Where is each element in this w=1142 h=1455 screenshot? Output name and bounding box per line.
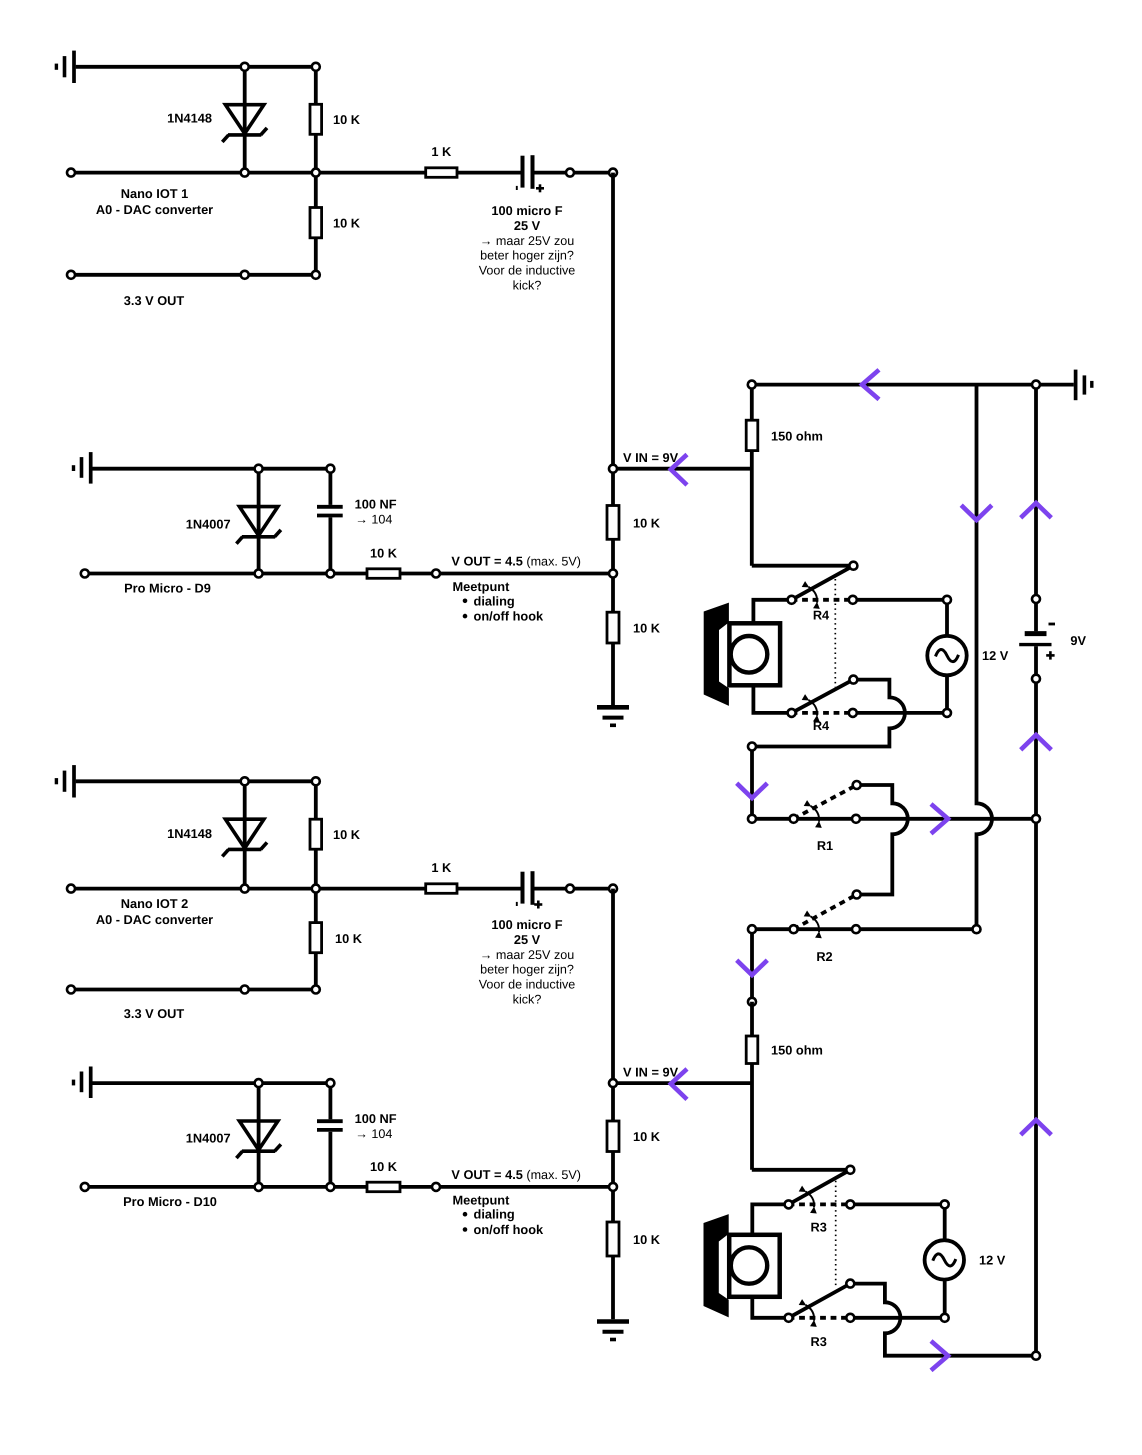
wire: between VIN divider resistors upper	[611, 539, 615, 612]
svg-text:100 micro F: 100 micro F	[491, 203, 562, 218]
node phone1 bottom rail end	[748, 743, 756, 751]
node A0 rail 2 / divider mid	[312, 885, 320, 893]
wire: R3 lower contact with hop to bottom rail	[850, 1284, 1036, 1356]
node battery negative terminal	[1032, 595, 1040, 603]
svg-text:10 K: 10 K	[633, 621, 661, 636]
node R1 rail / wire B junction	[1032, 815, 1040, 823]
node terminal A0 DAC 1	[67, 169, 75, 177]
wire: DAC output rail (node A0-1)	[71, 171, 426, 175]
node R4 upper contact	[849, 562, 857, 570]
speaker SP2 (telephone 2)	[704, 1214, 780, 1317]
svg-text:V IN = 9V: V IN = 9V	[623, 450, 679, 465]
arrow chevron purple (top rail, left)	[862, 370, 879, 400]
svg-text:Pro Micro - D9: Pro Micro - D9	[124, 581, 211, 596]
speaker SP1 (telephone 1)	[704, 603, 780, 706]
capacitor C4 100NF	[317, 1083, 343, 1187]
arrow chevron purple (down, wire A)	[961, 505, 992, 520]
node V OUT junction 1	[609, 570, 617, 578]
node GND rail 2 / D3 cathode	[241, 777, 249, 785]
wire: 150 ohm branch vertical (upper)	[750, 385, 754, 566]
node terminal Pro Micro D9	[81, 570, 89, 578]
switch R3 lower: blade	[789, 1284, 851, 1318]
svg-text:V IN = 9V: V IN = 9V	[623, 1064, 679, 1079]
svg-text:150 ohm: 150 ohm	[771, 1043, 823, 1058]
wire: between divider resistors	[314, 134, 318, 207]
node R3 lower contact	[846, 1280, 854, 1288]
arrow chevron purple (down, phone1 to R1)	[737, 783, 768, 798]
wire: speaker SP1 top lead	[753, 600, 791, 624]
diode D4 1N4007 (zener)	[236, 1083, 281, 1187]
svg-text:1N4148: 1N4148	[167, 111, 212, 126]
svg-text:25 V: 25 V	[514, 218, 541, 233]
node R2 pivot	[790, 925, 798, 933]
ground G5 (nano 2)	[56, 765, 74, 797]
wire: divider bottom to 3.3V rail lower	[314, 953, 318, 990]
node terminal 3.3V OUT 2	[67, 986, 75, 994]
node R4 lower throw	[849, 709, 857, 717]
svg-text:on/off hook: on/off hook	[474, 609, 545, 624]
node battery positive terminal	[1032, 675, 1040, 683]
wire: G5 ground rail to divider top	[76, 779, 316, 783]
wire: R1 contact with hop down to R2 contact	[857, 785, 908, 895]
svg-text:1N4007: 1N4007	[186, 1131, 231, 1146]
label Meetpunt bullets lower	[453, 1193, 545, 1237]
wire: 10K to V OUT node lower	[400, 1185, 613, 1189]
node D10 rail / D4 anode	[255, 1183, 263, 1191]
svg-text:10 K: 10 K	[633, 1232, 661, 1247]
wire: to ground G3	[611, 643, 615, 705]
wire: R2 node down through 150 ohm lower	[750, 1002, 754, 1170]
wire: R1 rail	[752, 817, 1036, 821]
svg-text:A0 - DAC converter: A0 - DAC converter	[96, 912, 213, 927]
wire: R4 lower contact with hop over to bottom rail	[752, 680, 905, 747]
node 150 ohm lower top node	[748, 998, 756, 1006]
node GND rail / C4 top	[326, 1079, 334, 1087]
long vertical wire A with hop over R1 rail	[977, 385, 993, 930]
svg-text:Pro Micro - D10: Pro Micro - D10	[123, 1194, 217, 1209]
node R1 throw on rail	[852, 815, 860, 823]
ground G4 (top right)	[1076, 370, 1092, 401]
svg-text:Voor de inductive: Voor de inductive	[479, 978, 576, 992]
switch R3 upper: blade	[789, 1170, 851, 1205]
wire: capacitor C1 to corner node	[535, 171, 614, 175]
svg-text:R2: R2	[816, 949, 832, 964]
svg-text:→ 104: → 104	[355, 512, 392, 526]
svg-text:A0 - DAC converter: A0 - DAC converter	[96, 202, 213, 217]
node GND rail / D4 cathode	[255, 1079, 263, 1087]
resistor R-D2 10K (upper VIN divider bottom)	[607, 612, 619, 643]
node top rail / 150 ohm branch	[748, 381, 756, 389]
svg-text:R1: R1	[817, 838, 833, 853]
svg-text:Voor de inductive: Voor de inductive	[479, 264, 576, 278]
node corner to VIN rail 2	[609, 885, 617, 893]
node GND rail / R-A1 top	[312, 63, 320, 71]
diode D3 1N4148 (zener)	[222, 781, 267, 888]
resistor R-I2 10K (lower VIN divider bottom)	[607, 1222, 619, 1256]
switch R4 lower: blade	[792, 680, 854, 713]
svg-text:dialing: dialing	[474, 593, 515, 608]
resistor R-D1 10K (upper VIN divider top)	[607, 506, 619, 540]
svg-text:10 K: 10 K	[633, 515, 661, 530]
switch R4 lower: open throw dashed	[792, 711, 853, 715]
wire: main vertical rail (cap out to ground) upper	[611, 173, 615, 506]
arrow chevron purple (right, R1 rail)	[931, 804, 948, 834]
svg-text:10 K: 10 K	[335, 931, 363, 946]
node AC1 top	[943, 596, 951, 604]
wire: V IN = 9V feed (upper)	[613, 467, 752, 471]
svg-text:12 V: 12 V	[982, 648, 1009, 663]
wire: corner to R4 upper contact	[752, 564, 854, 568]
svg-text:kick?: kick?	[513, 993, 542, 1007]
resistor R-G1 1K (series lower)	[426, 884, 457, 894]
svg-text:→ maar 25V zou: → maar 25V zou	[480, 234, 575, 248]
node terminal 3.3V OUT 1	[67, 271, 75, 279]
svg-text:10 K: 10 K	[333, 112, 361, 127]
node GND rail / C2 top	[326, 465, 334, 473]
node R2 throw on rail	[852, 925, 860, 933]
svg-text:beter hoger zijn?: beter hoger zijn?	[480, 963, 574, 977]
resistor R-A2 10K (divider bottom)	[310, 208, 322, 238]
svg-text:9V: 9V	[1070, 633, 1086, 648]
node AC2 top	[941, 1200, 949, 1208]
svg-text:1N4007: 1N4007	[186, 516, 231, 531]
switch R4 upper: blade	[792, 566, 854, 600]
svg-text:V OUT = 4.5 (max. 5V): V OUT = 4.5 (max. 5V)	[451, 554, 581, 569]
node R3 upper throw	[846, 1200, 854, 1208]
wire: Pro Micro D10 output rail	[85, 1185, 367, 1189]
arrow chevron purple (up, wire B lower)	[1021, 1120, 1052, 1135]
svg-text:kick?: kick?	[513, 279, 542, 293]
svg-text:1N4148: 1N4148	[167, 826, 212, 841]
node R-H1 output	[432, 1183, 440, 1191]
battery BT1 9V	[1019, 599, 1055, 679]
wire: G2 ground rail	[93, 467, 331, 471]
wire: 3.3V OUT rail	[71, 273, 316, 277]
node R2 open contact	[853, 891, 861, 899]
switch R3 upper: motion arrow	[806, 1192, 814, 1208]
resistor R-A1 10K (divider top)	[310, 67, 322, 135]
diode D2 1N4007 (zener)	[236, 469, 281, 574]
node 3.3V rail mid 1	[241, 271, 249, 279]
wire: 1K to capacitor C1	[457, 171, 521, 175]
node top rail / battery branch	[1032, 381, 1040, 389]
wire: R4 lower throw to AC source bottom	[853, 711, 947, 715]
wire: between VIN divider resistors lower	[611, 1152, 615, 1223]
node GND rail 2 / R-F1 top	[312, 777, 320, 785]
node R3 lower pivot	[785, 1314, 793, 1322]
long vertical wire B (battery branch) top	[1034, 385, 1038, 599]
svg-text:R3: R3	[811, 1334, 827, 1349]
node D9 rail / D2 anode	[255, 570, 263, 578]
node AC2 bottom	[941, 1314, 949, 1322]
svg-text:Meetpunt: Meetpunt	[453, 579, 511, 594]
mechanical link dotted R3	[835, 1181, 837, 1289]
resistor R-J1 150 ohm (lower)	[746, 1036, 758, 1064]
node R1 open contact	[853, 781, 861, 789]
node A0 rail / divider mid 1	[312, 169, 320, 177]
wire: to ground G7	[611, 1256, 615, 1319]
svg-text:Meetpunt: Meetpunt	[453, 1193, 511, 1208]
svg-text:Nano IOT 1: Nano IOT 1	[121, 186, 189, 201]
wire: speaker SP1 bottom lead	[753, 685, 791, 713]
switch R4 lower: motion arrow	[809, 700, 817, 716]
node 3.3V rail 2 / R-F2 bottom	[312, 986, 320, 994]
svg-text:10 K: 10 K	[370, 1159, 398, 1174]
switch R3 lower: motion arrow	[806, 1305, 814, 1321]
arrow chevron purple (V IN lower, left)	[671, 1069, 687, 1100]
wire: speaker SP2 bottom lead	[752, 1297, 788, 1318]
svg-text:3.3 V OUT: 3.3 V OUT	[124, 1006, 185, 1021]
arrow chevron purple (V IN upper, left)	[671, 455, 687, 486]
resistor R-F1 10K (divider top lower)	[310, 781, 322, 849]
svg-text:Nano IOT 2: Nano IOT 2	[121, 896, 189, 911]
node C3 output	[566, 885, 574, 893]
node GND rail / D2 cathode	[255, 465, 263, 473]
svg-text:100 NF: 100 NF	[355, 1111, 397, 1126]
svg-text:R4: R4	[813, 608, 830, 623]
arrow chevron purple (up, wire B top)	[1021, 503, 1052, 518]
AC source AC1 12V	[927, 600, 966, 713]
node R4 upper pivot	[788, 596, 796, 604]
svg-text:150 ohm: 150 ohm	[771, 428, 823, 443]
label C1 100 micro F / 25 V note	[479, 203, 576, 293]
node bottom rail / wire B end	[1032, 1352, 1040, 1360]
node R4 lower pivot	[788, 709, 796, 717]
svg-text:12 V: 12 V	[979, 1253, 1006, 1268]
switch R3 lower: open throw dashed	[789, 1316, 851, 1320]
wire: 3.3V OUT rail lower	[71, 988, 316, 992]
switch R1: dashed blade	[794, 785, 857, 819]
wire: corner to R3 upper contact	[752, 1168, 851, 1172]
svg-text:10 K: 10 K	[333, 827, 361, 842]
capacitor C2 100NF	[317, 469, 343, 574]
node terminal A0 DAC 2	[67, 885, 75, 893]
svg-text:R4: R4	[813, 718, 830, 733]
wire: phone1 bottom node down to R1 rail	[750, 747, 754, 819]
node V IN junction 2	[609, 1079, 617, 1087]
svg-text:10 K: 10 K	[333, 216, 361, 231]
node R1 rail left end	[748, 815, 756, 823]
wire: R3 lower throw to AC2 bottom	[850, 1316, 944, 1320]
svg-text:→ 104: → 104	[355, 1127, 392, 1141]
node A0 rail 2 / D3 anode	[241, 885, 249, 893]
svg-text:100 NF: 100 NF	[355, 497, 397, 512]
capacitor C1 100uF electrolytic	[517, 155, 544, 192]
ground G3 (below divider upper)	[597, 707, 629, 725]
node AC1 bottom	[943, 709, 951, 717]
resistor R-C1 10K (series pro micro)	[367, 569, 400, 579]
ground G2 (pro micro upper)	[74, 452, 91, 484]
wire: G1 ground rail to divider top	[76, 65, 316, 69]
wire: V IN = 9V feed (lower)	[613, 1081, 752, 1085]
wire: battery to R1 rail and beyond (wire B)	[1034, 679, 1038, 1356]
resistor R-E1 150 ohm (upper)	[746, 420, 758, 450]
node 3.3V rail / R-A2 bottom	[312, 271, 320, 279]
node D10 rail / C4 bottom	[326, 1183, 334, 1191]
wire: capacitor C3 to corner node	[535, 887, 614, 891]
wire: 1K to capacitor C3	[457, 887, 521, 891]
svg-text:1 K: 1 K	[431, 144, 452, 159]
node V IN junction 1	[609, 465, 617, 473]
arrow chevron purple (down, R2 to 150 ohm)	[737, 960, 768, 975]
node R1 pivot	[790, 815, 798, 823]
node V OUT junction 2	[609, 1183, 617, 1191]
wire: 10K to V OUT node	[400, 572, 613, 576]
node C1 output	[566, 169, 574, 177]
ground G1 (top-left)	[56, 51, 74, 83]
svg-text:1 K: 1 K	[431, 860, 452, 875]
node 3.3V rail 2 mid	[241, 986, 249, 994]
svg-text:25 V: 25 V	[514, 932, 541, 947]
resistor R-F2 10K (divider bottom lower)	[310, 923, 322, 953]
node R2 rail / wire A junction	[973, 925, 981, 933]
svg-text:3.3 V OUT: 3.3 V OUT	[124, 293, 185, 308]
capacitor C3 100uF electrolytic	[517, 871, 543, 908]
node R4 lower contact	[849, 676, 857, 684]
svg-text:dialing: dialing	[474, 1207, 515, 1222]
svg-text:100 micro F: 100 micro F	[491, 917, 562, 932]
switch R1: motion arrow	[811, 806, 819, 822]
node A0 rail / D1 anode	[241, 169, 249, 177]
svg-text:V OUT = 4.5 (max. 5V): V OUT = 4.5 (max. 5V)	[451, 1167, 581, 1182]
wire: divider bottom to 3.3V rail	[314, 238, 318, 275]
switch R4 upper: motion arrow	[809, 587, 817, 603]
mechanical link dotted R4	[834, 579, 836, 687]
label C3 100 micro F / 25 V note	[479, 917, 576, 1007]
wire: speaker SP2 top lead	[752, 1204, 788, 1234]
resistor R-I1 10K (lower VIN divider top)	[607, 1121, 619, 1152]
svg-text:→ maar 25V zou: → maar 25V zou	[480, 948, 575, 962]
node R3 upper pivot	[785, 1200, 793, 1208]
node R3 upper contact	[846, 1166, 854, 1174]
node R3 lower throw	[846, 1314, 854, 1322]
arrow chevron purple (right, bottom rail)	[931, 1341, 948, 1370]
node corner to VIN rail 1	[609, 169, 617, 177]
svg-text:on/off hook: on/off hook	[474, 1222, 545, 1237]
diode D1 1N4148 (zener)	[222, 67, 267, 173]
label Meetpunt bullets	[453, 579, 545, 623]
wire: top ground rail	[752, 383, 1074, 387]
wire: R2 rail down to lower 150 ohm	[750, 929, 754, 1002]
wire: DAC output rail (node A0-2)	[71, 887, 426, 891]
switch R4 upper: open throw dashed	[792, 598, 853, 602]
wire: G6 ground rail	[93, 1081, 331, 1085]
resistor R-H1 10K (series pro micro lower)	[367, 1182, 400, 1192]
wire: Pro Micro D9 output rail	[85, 572, 367, 576]
ground G7 (below divider lower)	[597, 1322, 629, 1340]
node R4 upper throw	[849, 596, 857, 604]
node terminal Pro Micro D10	[81, 1183, 89, 1191]
wire: between divider resistors lower	[314, 849, 318, 922]
wire: main vertical rail lower (cap out to ground)	[611, 889, 615, 1121]
switch R3 upper: open throw dashed	[789, 1203, 851, 1207]
node D9 rail / C2 bottom	[326, 570, 334, 578]
wire: R3 upper throw to AC2	[850, 1203, 944, 1207]
node R-C1 output	[432, 570, 440, 578]
svg-text:10 K: 10 K	[370, 546, 398, 561]
svg-text:10 K: 10 K	[633, 1129, 661, 1144]
arrow chevron purple (up, wire B below battery)	[1021, 735, 1052, 750]
wire: R2 rail	[752, 927, 977, 931]
AC source AC2 12V	[925, 1204, 964, 1317]
svg-text:beter hoger zijn?: beter hoger zijn?	[480, 249, 574, 263]
ground G6 (pro micro lower)	[74, 1067, 91, 1099]
node GND rail / D1 cathode	[241, 63, 249, 71]
switch R2: dashed blade	[794, 895, 857, 930]
svg-text:R3: R3	[811, 1220, 827, 1235]
wire: R4 upper throw to AC source	[853, 598, 947, 602]
node R2 rail left end	[748, 925, 756, 933]
resistor R-B1 1K (series)	[426, 168, 457, 178]
switch R2: motion arrow	[811, 916, 819, 932]
